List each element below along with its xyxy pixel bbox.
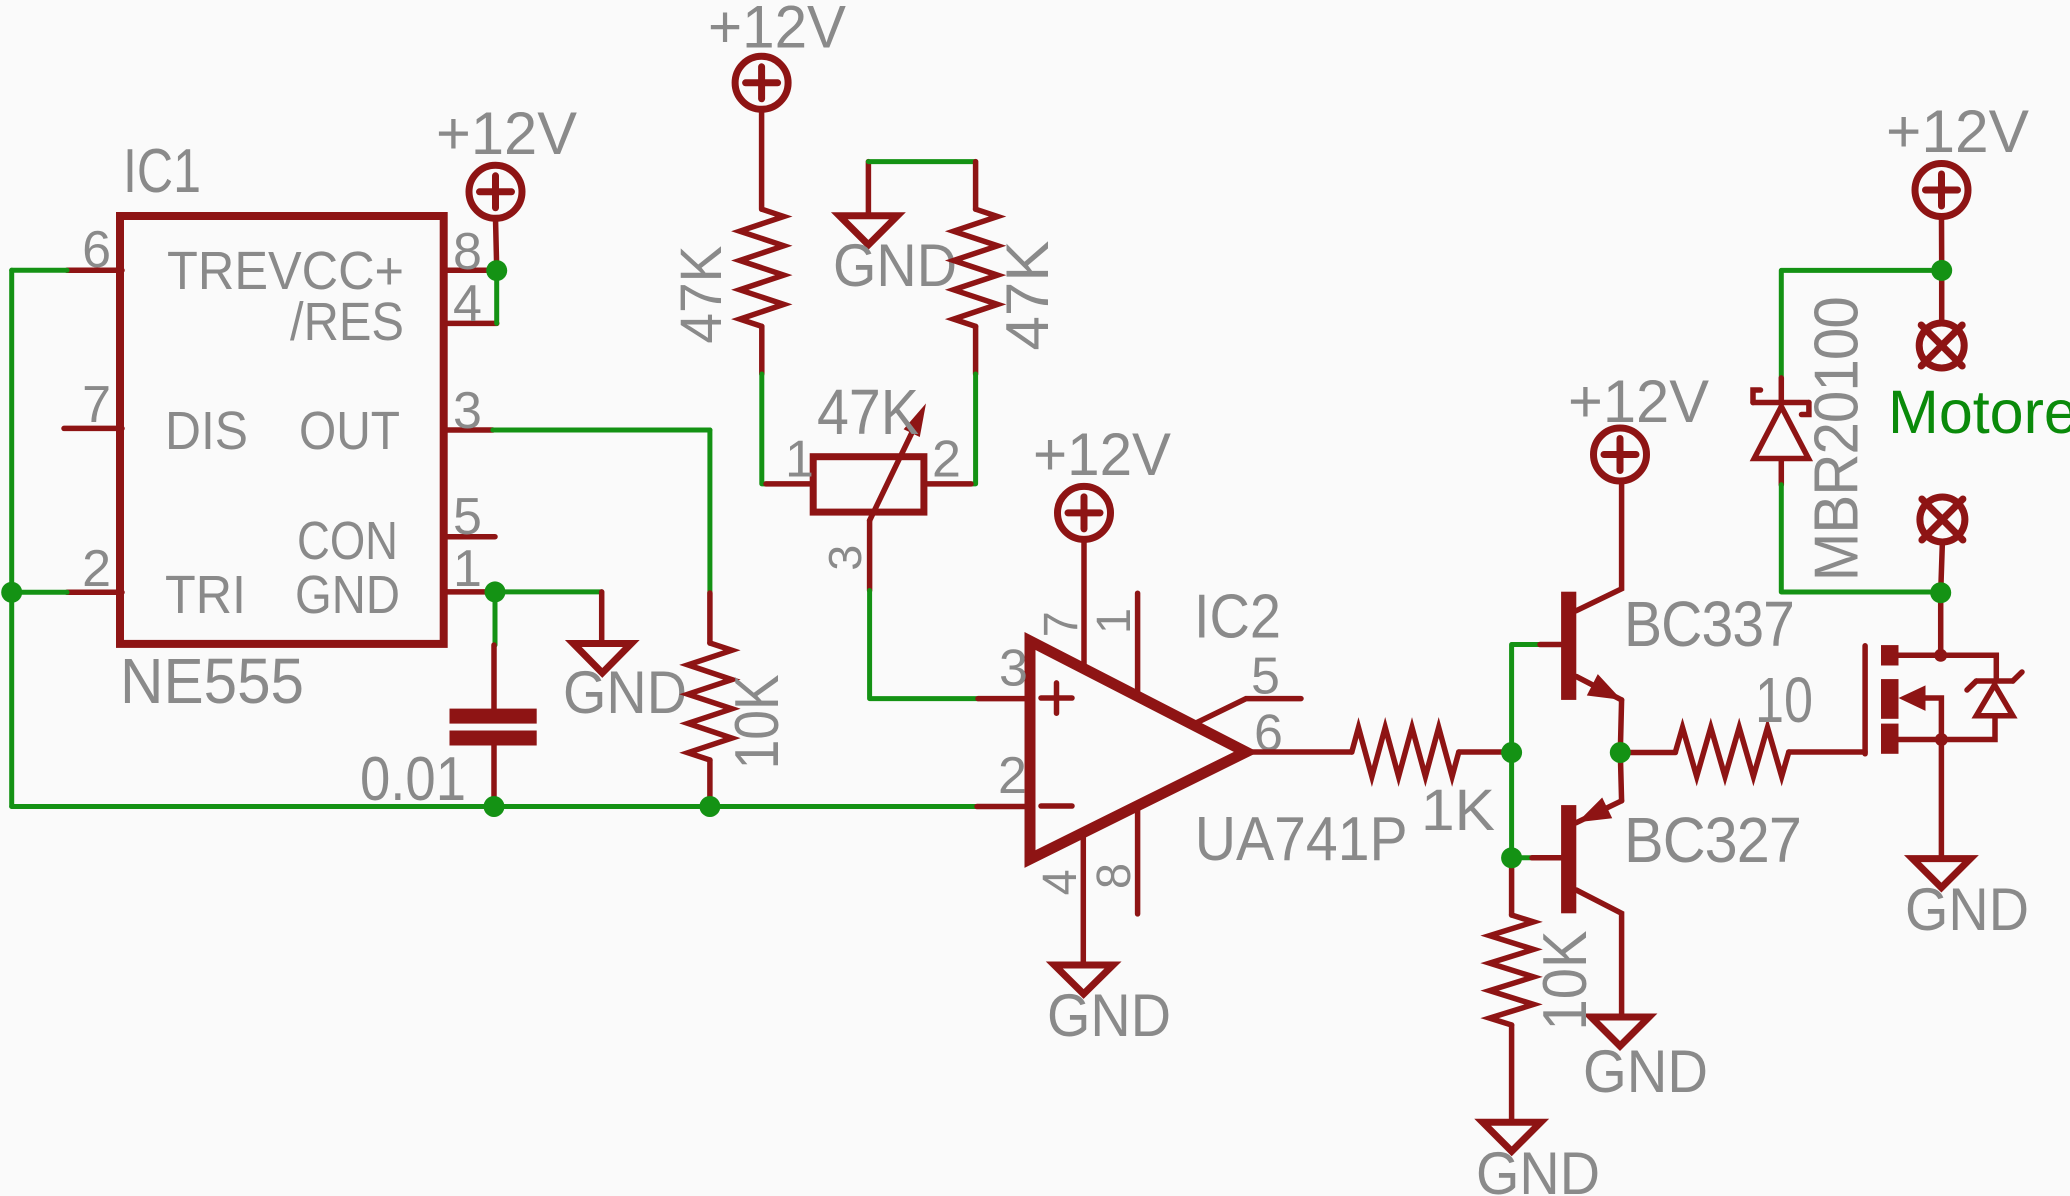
supply +12V symbol (R1) bbox=[735, 56, 788, 109]
BC327 base stub bbox=[1532, 855, 1562, 861]
mosfet T1 source link bbox=[1899, 737, 1942, 743]
ground GND (T1) bbox=[1912, 859, 1970, 888]
svg-text:+12V: +12V bbox=[1033, 421, 1171, 488]
supply +12V symbol (IC1) bbox=[469, 165, 522, 218]
ground GND (IC2) bbox=[1054, 965, 1113, 994]
svg-text:GND: GND bbox=[1583, 1038, 1708, 1105]
svg-text:2: 2 bbox=[998, 747, 1027, 805]
svg-text:GND: GND bbox=[295, 565, 400, 625]
mosfet T1 body arrow bbox=[1899, 685, 1926, 711]
svg-text:8: 8 bbox=[1088, 863, 1141, 889]
wire OUT right bbox=[493, 428, 710, 433]
resistor R2 top lead bbox=[973, 162, 979, 210]
junction motor +12V bbox=[1931, 260, 1952, 281]
pot pin 3 stub bbox=[867, 521, 873, 591]
svg-text:CON: CON bbox=[297, 511, 398, 571]
svg-text:3: 3 bbox=[453, 382, 482, 440]
junction pin1 bbox=[485, 581, 506, 602]
wire junction to motor terminal top bbox=[1939, 270, 1945, 321]
junction pin8 bbox=[486, 260, 507, 281]
op-amp minus sign bbox=[1041, 803, 1072, 809]
IC1 pin 8 stub bbox=[443, 268, 497, 274]
wire stub to op-amp pin2 bbox=[977, 804, 1030, 810]
svg-text:1: 1 bbox=[1088, 608, 1141, 634]
svg-text:6: 6 bbox=[82, 221, 111, 279]
wire pin1 down to cap bbox=[493, 592, 498, 645]
pot pin2 stub bbox=[924, 481, 971, 487]
cap C1 top lead bbox=[491, 645, 497, 709]
mosfet body diode branch bottom bbox=[1941, 716, 1995, 740]
Q1 collector line bbox=[1576, 482, 1621, 611]
resistor R6 10K zigzag bbox=[1490, 915, 1534, 1025]
svg-text:+12V: +12V bbox=[708, 0, 846, 61]
svg-text:47K: 47K bbox=[669, 245, 734, 343]
resistor R3 10K top lead bbox=[707, 593, 713, 643]
op-amp pin8 line bbox=[1135, 806, 1141, 914]
Q1 emitter line bbox=[1576, 677, 1621, 700]
svg-text:47K: 47K bbox=[994, 241, 1061, 351]
ground GND (R6) bbox=[1483, 1122, 1541, 1151]
wire +12V to motor junction bbox=[1939, 217, 1945, 269]
svg-text:DIS: DIS bbox=[165, 401, 248, 461]
mosfet T1 drain link bbox=[1899, 653, 1942, 659]
junction BC327 base node bbox=[1501, 847, 1522, 868]
mosfet T1 channel bars bbox=[1881, 645, 1899, 754]
potentiometer R4 wiper arrow line bbox=[870, 420, 918, 521]
svg-text:47K: 47K bbox=[817, 376, 919, 448]
wire junction to diode top bbox=[1781, 270, 1941, 378]
BC337 base stub bbox=[1540, 642, 1562, 648]
svg-text:10K: 10K bbox=[723, 674, 792, 769]
wire +12V to pin8 junction bbox=[496, 218, 497, 268]
capacitor C1 plates bbox=[450, 709, 537, 746]
wire OUT down bbox=[707, 430, 712, 593]
resistor R2 bottom lead bbox=[973, 326, 979, 374]
svg-text:IC2: IC2 bbox=[1194, 583, 1281, 652]
resistor R6 top lead bbox=[1509, 858, 1515, 915]
svg-text:1K: 1K bbox=[1421, 778, 1495, 843]
svg-text:3: 3 bbox=[819, 545, 871, 571]
svg-text:5: 5 bbox=[1251, 648, 1280, 706]
mosfet T1 gate bar bbox=[1862, 646, 1868, 754]
Q1 emitter to node bbox=[1620, 700, 1621, 753]
svg-text:NE555: NE555 bbox=[120, 645, 304, 717]
transistor Q1 BC337 base bar bbox=[1561, 592, 1576, 700]
svg-text:GND: GND bbox=[563, 659, 687, 726]
svg-text:0.01: 0.01 bbox=[360, 745, 466, 814]
svg-text:8: 8 bbox=[453, 223, 482, 281]
mosfet drain to node bbox=[1938, 593, 1944, 656]
wire pin1 to GND drop bbox=[495, 589, 602, 594]
junction cap bottom bbox=[484, 796, 505, 817]
op-amp pin3 stub bbox=[978, 696, 1030, 702]
diode D1 top lead bbox=[1779, 378, 1785, 403]
wire GND drop bbox=[599, 592, 605, 644]
ground GND (IC1) bbox=[573, 644, 631, 673]
svg-text:1: 1 bbox=[453, 540, 482, 598]
mosfet body diode cathode bar bbox=[1967, 672, 2022, 690]
pot pin1 stub bbox=[766, 481, 813, 487]
svg-text:10: 10 bbox=[1755, 664, 1813, 736]
svg-text:+12V: +12V bbox=[436, 100, 577, 167]
wire base node down to BC327 base bbox=[1509, 753, 1514, 858]
resistor R1 47K zigzag bbox=[740, 209, 784, 326]
op-amp IC2 triangle bbox=[1030, 641, 1246, 859]
op-amp IC2 pin1 line bbox=[1135, 593, 1141, 697]
svg-text:Motore: Motore bbox=[1888, 378, 2070, 446]
resistor R5 right lead bbox=[1459, 749, 1505, 755]
resistor R7 10 zigzag bbox=[1675, 728, 1788, 777]
wire bottom long horizontal bbox=[12, 804, 977, 809]
diode D1 bottom lead bbox=[1779, 459, 1785, 485]
mosfet body arrow link bbox=[1926, 698, 1942, 740]
wire pin6 left bbox=[12, 268, 67, 273]
potentiometer R4 body bbox=[813, 457, 924, 512]
resistor R3 10K bottom lead bbox=[707, 760, 713, 807]
Q2 emitter arrowhead bbox=[1578, 798, 1613, 823]
IC1 pin 2 stub bbox=[67, 590, 122, 596]
resistor R1 top lead bbox=[759, 109, 765, 209]
svg-text:3: 3 bbox=[999, 640, 1028, 698]
BC327 base wire bbox=[1512, 855, 1532, 860]
IC1 pin 1 stub bbox=[443, 589, 495, 595]
wire GND top horizontal bbox=[868, 159, 975, 164]
Q2 collector line bbox=[1576, 890, 1621, 1017]
potentiometer R4 wiper arrowhead bbox=[904, 403, 926, 437]
svg-text:2: 2 bbox=[82, 540, 111, 598]
IC1 pin 4 stub bbox=[443, 321, 497, 327]
op-amp pin6 output stub bbox=[1246, 749, 1352, 755]
svg-text:GND: GND bbox=[1476, 1140, 1600, 1196]
transistor Q2 BC327 base bar bbox=[1561, 805, 1576, 913]
ground GND (pot net) drop bbox=[866, 162, 872, 216]
resistor R1 bottom lead bbox=[759, 326, 765, 374]
svg-text:+12V: +12V bbox=[1886, 98, 2029, 165]
mosfet source dot bbox=[1935, 733, 1948, 746]
svg-text:5: 5 bbox=[453, 488, 482, 546]
resistor R6 bottom lead bbox=[1509, 1025, 1515, 1122]
resistor R2 47K zigzag bbox=[954, 209, 998, 326]
svg-text:BC327: BC327 bbox=[1624, 804, 1801, 876]
svg-text:TRE: TRE bbox=[167, 241, 268, 301]
junction emitters node bbox=[1610, 742, 1631, 763]
svg-text:7: 7 bbox=[1035, 611, 1088, 637]
junction base node bbox=[1501, 742, 1522, 763]
mosfet body diode triangle bbox=[1976, 685, 2013, 716]
motor terminal bottom bbox=[1920, 497, 1965, 542]
ground GND (pot net) bbox=[839, 216, 897, 245]
svg-text:OUT: OUT bbox=[299, 401, 400, 461]
diode D1 MBR20100 schottky cathode bbox=[1753, 390, 1809, 415]
resistor R7 right lead to gate bbox=[1789, 749, 1865, 755]
svg-text:1: 1 bbox=[785, 431, 814, 489]
resistor R3 10K zigzag bbox=[688, 643, 732, 760]
IC1 NE555 body box bbox=[120, 216, 444, 644]
wire left vertical bbox=[9, 270, 14, 806]
op-amp pin5 line bbox=[1196, 699, 1301, 723]
Q2 emitter line bbox=[1576, 801, 1621, 823]
wire R2 to pot pin2 bbox=[971, 374, 976, 484]
op-amp pin4 line bbox=[1081, 833, 1087, 966]
op-amp plus sign bbox=[1041, 683, 1072, 713]
op-amp IC2 pin7 line bbox=[1081, 539, 1087, 669]
wire pin2 left bbox=[12, 590, 67, 595]
resistor R7 left lead bbox=[1620, 750, 1675, 756]
svg-text:IC1: IC1 bbox=[123, 137, 201, 206]
wire motor bottom to drain node bbox=[1941, 542, 1943, 593]
wire pot pin3 to op-amp +in bbox=[870, 591, 978, 699]
diode D1 anode triangle bbox=[1754, 407, 1808, 459]
svg-text:GND: GND bbox=[1905, 876, 2029, 943]
svg-text:MBR20100: MBR20100 bbox=[1803, 297, 1872, 581]
svg-text:TRI: TRI bbox=[165, 565, 246, 625]
svg-text:GND: GND bbox=[833, 232, 957, 299]
svg-text:GND: GND bbox=[1047, 982, 1171, 1049]
svg-text:+12V: +12V bbox=[1568, 368, 1709, 435]
svg-text:/RES: /RES bbox=[290, 292, 404, 352]
svg-text:10K: 10K bbox=[1531, 931, 1600, 1031]
svg-text:2: 2 bbox=[932, 431, 961, 489]
junction left TRI bbox=[1, 582, 22, 603]
IC1 pin 6 stub bbox=[67, 268, 122, 274]
svg-text:UA741P: UA741P bbox=[1195, 805, 1408, 874]
junction R3 bottom bbox=[699, 796, 720, 817]
svg-text:7: 7 bbox=[82, 376, 111, 434]
resistor R5 1K zigzag bbox=[1352, 728, 1459, 777]
wire diode anode to drain node bbox=[1781, 485, 1940, 592]
Q1 emitter arrowhead bbox=[1587, 674, 1622, 700]
wire source to GND bbox=[1939, 740, 1945, 859]
supply +12V symbol (motor) bbox=[1915, 164, 1968, 217]
Q2 emitter to node bbox=[1620, 753, 1621, 801]
IC1 pin 7 stub bbox=[64, 426, 122, 432]
svg-text:BC337: BC337 bbox=[1624, 588, 1794, 660]
mosfet drain dot bbox=[1934, 649, 1947, 662]
svg-text:4: 4 bbox=[453, 275, 482, 333]
wire pin8 to pin4 bbox=[494, 271, 499, 324]
wire R1 to pot pin1 bbox=[762, 374, 766, 484]
supply +12V symbol (Q1) bbox=[1594, 428, 1647, 481]
motor terminal top bbox=[1919, 323, 1964, 368]
junction drain node bbox=[1930, 582, 1951, 603]
supply +12V symbol (IC2) bbox=[1058, 486, 1111, 539]
svg-text:4: 4 bbox=[1034, 869, 1087, 895]
mosfet body diode branch top bbox=[1941, 655, 1997, 679]
wire base node up to BC337 base bbox=[1512, 645, 1540, 753]
cap C1 bottom lead bbox=[491, 746, 497, 807]
IC1 pin 3 stub bbox=[443, 427, 493, 433]
IC1 pin 5 stub bbox=[443, 534, 495, 540]
ground GND (Q2) bbox=[1591, 1017, 1649, 1046]
